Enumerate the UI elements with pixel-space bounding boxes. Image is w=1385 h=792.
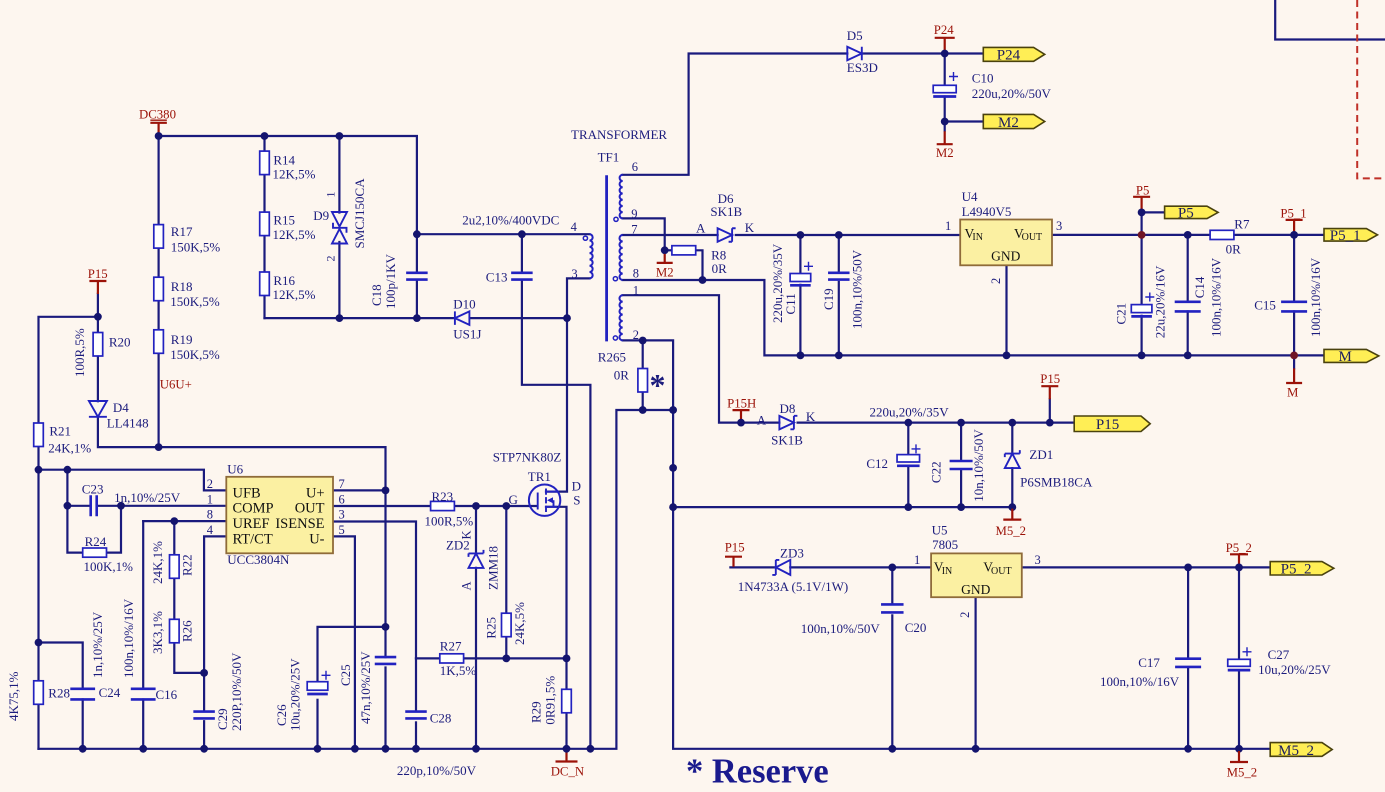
junction P15 node: [1046, 419, 1054, 427]
svg-text:D10: D10: [453, 297, 475, 312]
svg-text:ISENSE: ISENSE: [275, 516, 324, 532]
svg-text:P5: P5: [1136, 184, 1150, 198]
wire C28 top lead: [415, 658, 417, 711]
power port P5_2: [1230, 554, 1248, 567]
svg-text:C23: C23: [82, 482, 104, 497]
junction C17 bottom: [1184, 745, 1192, 753]
wire R25 riser: [505, 506, 507, 613]
svg-text:6: 6: [339, 492, 345, 506]
wire R28 bottom lead: [37, 704, 39, 749]
junction R8 right on pin8 wire: [699, 276, 707, 284]
svg-text:M2: M2: [998, 115, 1019, 131]
op-amp U4 regulator L4940V5: [960, 220, 1052, 266]
TF1 polarity dots: [614, 217, 618, 221]
svg-text:3: 3: [1035, 553, 1041, 567]
port flag P5_2: [1270, 562, 1334, 575]
svg-text:1: 1: [207, 492, 213, 506]
junction C14 top: [1184, 231, 1192, 239]
power port DC_N: [556, 751, 578, 762]
svg-text:U-: U-: [309, 531, 324, 547]
junction C29 at bus: [200, 745, 208, 753]
svg-text:100n,10%/50V: 100n,10%/50V: [801, 621, 881, 636]
svg-text:A: A: [696, 221, 706, 236]
wire R7 to P5_1: [1234, 234, 1324, 236]
junction C19 bottom: [835, 352, 843, 360]
wire C25 bottom lead: [384, 668, 386, 749]
wire ZD1 anode lead: [1011, 468, 1013, 507]
svg-text:P5_2: P5_2: [1281, 562, 1312, 578]
svg-text:P5: P5: [1178, 206, 1194, 222]
svg-text:220P,10%/50V: 220P,10%/50V: [229, 652, 244, 731]
wire C17 bottom lead: [1187, 667, 1189, 748]
svg-text:100R,5%: 100R,5%: [425, 514, 474, 529]
svg-text:ES3D: ES3D: [847, 60, 878, 75]
resistor R26: [170, 619, 180, 643]
junction DC380 at rail: [155, 132, 163, 140]
junction C25 at bus: [382, 745, 390, 753]
wire U5 VOUT to P5_2: [1022, 566, 1270, 568]
wire TF1 pin3 route: [567, 278, 590, 318]
svg-text:M: M: [1287, 386, 1298, 400]
wire DC_N ground bus: [39, 410, 674, 749]
wire ZD2 anode lead: [475, 568, 477, 749]
junction UFB left rail: [35, 466, 43, 474]
svg-text:P15: P15: [725, 540, 745, 554]
wire COMP pin1: [97, 505, 227, 507]
junction C13 path at bus: [587, 745, 595, 753]
wire P15 node to left rail / R21: [39, 317, 98, 423]
wire C19 bottom lead: [838, 282, 840, 356]
resistor R16: [260, 272, 270, 296]
wire C17 top lead: [1187, 567, 1189, 657]
svg-text:100n,10%/50V: 100n,10%/50V: [850, 249, 865, 329]
wire C28 bottom lead: [415, 722, 417, 748]
svg-text:OUT: OUT: [1022, 232, 1043, 243]
junction R24 right: [117, 502, 125, 510]
resistor R28: [34, 681, 44, 705]
junction U+ pin7: [382, 487, 390, 495]
wire R265 top lead: [642, 341, 644, 369]
svg-text:C11: C11: [783, 293, 798, 314]
svg-text:M2: M2: [656, 265, 674, 279]
svg-text:2u2,10%/400VDC: 2u2,10%/400VDC: [462, 213, 559, 228]
svg-text:P5_1: P5_1: [1330, 228, 1361, 244]
TF1 winding pins 6-9: [620, 175, 623, 219]
wire C21 top lead: [1140, 235, 1142, 305]
svg-text:P5_1: P5_1: [1280, 206, 1306, 220]
svg-text:R14: R14: [273, 152, 295, 167]
svg-text:TR1: TR1: [528, 469, 551, 484]
svg-text:D5: D5: [847, 28, 863, 43]
svg-text:C27: C27: [1268, 647, 1290, 662]
svg-text:C18: C18: [369, 284, 384, 306]
svg-text:C16: C16: [156, 687, 178, 702]
svg-text:1: 1: [324, 192, 338, 198]
wire C16 riser: [142, 521, 144, 689]
wire P15 node to R20: [97, 317, 99, 331]
wire sheet corner top right: [1275, 0, 1385, 40]
junction C28 at bus: [412, 745, 420, 753]
wire D6 cathode to U4 VIN: [736, 234, 960, 236]
wire C18 top lead: [416, 234, 418, 271]
svg-text:U6: U6: [227, 462, 243, 477]
junction D10 to drain node: [563, 314, 571, 322]
diode D8: [779, 416, 794, 430]
junction C24 at bus: [79, 745, 87, 753]
svg-text:1N4733A (5.1V/1W): 1N4733A (5.1V/1W): [738, 579, 849, 594]
wire C22 top lead: [960, 423, 962, 460]
svg-text:C17: C17: [1138, 655, 1160, 670]
capacitor C26: [307, 682, 328, 691]
svg-text:UCC3804N: UCC3804N: [227, 552, 290, 567]
TVS diode D9: [332, 212, 347, 227]
svg-text:5: 5: [339, 523, 345, 537]
wire C10 bottom lead: [944, 97, 946, 131]
svg-text:GND: GND: [961, 582, 990, 597]
svg-text:1: 1: [633, 284, 639, 298]
capacitor C29: [193, 712, 215, 719]
resistor R7: [1210, 230, 1234, 239]
op-amp U5 regulator 7805: [931, 553, 1022, 597]
zener diode ZD1: [1005, 450, 1020, 457]
svg-text:K: K: [460, 530, 474, 539]
wire R20 to D4: [97, 356, 99, 401]
svg-text:R25: R25: [483, 617, 498, 639]
capacitor C27: [1228, 659, 1251, 666]
junction D9 top: [336, 132, 344, 140]
wire TF1 pin2 route: [623, 340, 673, 410]
wire C24 branch: [39, 643, 83, 689]
capacitor C18: [406, 273, 428, 280]
junction C11 bottom: [797, 352, 805, 360]
svg-text:7: 7: [339, 477, 345, 491]
capacitor C20: [881, 604, 904, 612]
svg-text:R23: R23: [432, 489, 454, 504]
svg-text:3: 3: [1056, 219, 1062, 233]
wire R8 right lead: [696, 250, 703, 280]
svg-text:10u,20%/25V: 10u,20%/25V: [1258, 662, 1331, 677]
svg-text:P6SMB18CA: P6SMB18CA: [1020, 475, 1093, 490]
port flag P24: [983, 47, 1044, 61]
wire R25 bottom lead: [505, 637, 507, 659]
capacitor C22: [950, 461, 973, 469]
wire U+ pin7 stub: [333, 489, 386, 491]
svg-text:D8: D8: [780, 401, 796, 416]
capacitor C12: [897, 455, 920, 462]
wire R27 to source riser: [464, 657, 567, 659]
svg-text:24K,1%: 24K,1%: [150, 541, 165, 584]
wire R22-R26: [173, 578, 175, 619]
svg-text:M5_2: M5_2: [1278, 743, 1314, 759]
svg-text:100R,5%: 100R,5%: [72, 328, 87, 377]
svg-text:R20: R20: [109, 335, 131, 350]
junction R22 top: [170, 517, 178, 525]
junction U6U+ node: [155, 443, 163, 451]
wire UREF pin8: [143, 520, 226, 522]
junction C22 top: [957, 419, 965, 427]
svg-text:IN: IN: [972, 232, 983, 243]
diode D6: [718, 228, 733, 242]
wire R17-R18: [158, 248, 160, 277]
power port P24: [935, 38, 955, 51]
svg-text:47n,10%/25V: 47n,10%/25V: [358, 651, 373, 724]
wire C10 top lead: [944, 54, 946, 86]
junction C14 bottom: [1184, 352, 1192, 360]
svg-text:COMP: COMP: [233, 501, 274, 517]
wire C27 top lead: [1238, 567, 1240, 659]
power port P5_1: [1286, 220, 1303, 235]
svg-text:ZD3: ZD3: [780, 546, 804, 561]
port flag M2: [983, 114, 1044, 128]
svg-text:STP7NK80Z: STP7NK80Z: [493, 450, 562, 465]
svg-text:LL4148: LL4148: [107, 416, 149, 431]
junction C20 bottom: [888, 745, 896, 753]
svg-text:150K,5%: 150K,5%: [170, 294, 220, 309]
wire R23 to gate: [454, 505, 536, 507]
svg-text:P5_2: P5_2: [1226, 541, 1252, 555]
svg-text:SMCJ150CA: SMCJ150CA: [352, 178, 367, 249]
svg-text:UREF: UREF: [233, 516, 270, 532]
junction P5 branch: [1138, 209, 1146, 217]
junction U- at bus: [351, 745, 359, 753]
wire R19 to U6U+ node: [158, 353, 160, 447]
wire drain riser: [546, 318, 567, 492]
op-amp U6 controller UCC3804N: [226, 477, 333, 554]
wire P5 flag stub: [1142, 211, 1165, 213]
svg-text:150K,5%: 150K,5%: [171, 240, 221, 255]
svg-text:1n,10%/25V: 1n,10%/25V: [114, 490, 181, 505]
svg-text:R7: R7: [1234, 217, 1250, 232]
svg-text:SK1B: SK1B: [710, 204, 742, 219]
svg-text:SK1B: SK1B: [771, 432, 803, 447]
power port P15H: [733, 410, 750, 423]
svg-text:R15: R15: [273, 213, 295, 228]
svg-text:R29: R29: [529, 701, 544, 723]
wire RT/CT pin4 route: [204, 536, 226, 710]
capacitor C23: [91, 495, 97, 516]
junction P15H node: [737, 419, 745, 427]
junction R265 bottom: [639, 406, 647, 414]
resistor R8: [672, 246, 696, 255]
resistor R27: [440, 654, 464, 663]
junction C27/P5_2 top: [1235, 564, 1243, 572]
svg-text:220u,20%/35V: 220u,20%/35V: [870, 404, 950, 419]
junction C12 top: [904, 419, 912, 427]
wire D8 cathode to P15 flag: [798, 422, 1075, 424]
svg-text:S: S: [573, 493, 580, 508]
svg-text:C20: C20: [905, 620, 927, 635]
wire P5 branch: [1140, 212, 1142, 235]
power port M2 below C10: [937, 131, 953, 144]
capacitor C15: [1281, 302, 1307, 312]
svg-text:R21: R21: [49, 424, 71, 439]
wire R265 bottom lead: [642, 392, 644, 410]
svg-text:0R: 0R: [712, 261, 728, 276]
wire U5 GND pin2: [974, 597, 976, 749]
junction D9 bottom: [336, 314, 344, 322]
capacitor C24: [70, 689, 95, 700]
svg-text:4K75,1%: 4K75,1%: [6, 671, 21, 721]
svg-text:1: 1: [945, 219, 951, 233]
svg-text:R22: R22: [180, 554, 195, 576]
junction C21 bottom: [1138, 352, 1146, 360]
svg-text:K: K: [806, 409, 816, 424]
svg-text:220u,20%/50V: 220u,20%/50V: [972, 86, 1052, 101]
svg-text:P15: P15: [88, 267, 108, 281]
svg-text:C13: C13: [486, 270, 508, 285]
wire R14-R15: [263, 175, 265, 213]
svg-text:3: 3: [339, 508, 345, 522]
svg-text:10n,10%/50V: 10n,10%/50V: [971, 429, 986, 502]
wire P15 stub to rail: [97, 294, 99, 317]
svg-text:C25: C25: [338, 664, 353, 686]
svg-text:100n,10%/16V: 100n,10%/16V: [121, 598, 136, 678]
wire U+ riser to C25: [384, 490, 386, 657]
wire D9 bottom lead: [338, 242, 340, 318]
power port DC380: [150, 123, 167, 136]
junction U4 GND bus: [1003, 352, 1011, 360]
junction C17 top: [1184, 564, 1192, 572]
wire TF1 pin1 route: [623, 295, 741, 422]
svg-text:1n,10%/25V: 1n,10%/25V: [90, 611, 105, 678]
svg-text:C15: C15: [1254, 298, 1276, 313]
capacitor C25: [375, 657, 397, 664]
svg-text:A: A: [460, 581, 474, 590]
junction pin2 riser at bus: [669, 406, 677, 414]
wire M5_2 riser and bottom bus: [673, 410, 1270, 749]
wire TF1 pin7 to D6: [623, 234, 718, 236]
wire UFB pin2 route: [39, 470, 227, 491]
svg-text:2: 2: [324, 256, 338, 262]
wire R22 top lead: [173, 521, 175, 555]
TF1 primary winding pins 4-3: [590, 234, 593, 278]
resistor R17: [154, 225, 164, 249]
wire snubber bottom bus: [265, 317, 455, 319]
svg-text:10u,20%/25V: 10u,20%/25V: [288, 658, 303, 731]
wire R15-R16: [263, 236, 265, 272]
svg-text:12K,5%: 12K,5%: [273, 227, 316, 242]
svg-text:DC_N: DC_N: [551, 765, 584, 779]
wire C18 bottom lead: [416, 281, 418, 318]
svg-text:TF1: TF1: [598, 150, 620, 165]
junction U5 GND bus: [972, 745, 980, 753]
svg-text:100K,1%: 100K,1%: [84, 559, 134, 574]
power port P15 at ZD3: [725, 557, 742, 567]
svg-text:8: 8: [207, 508, 213, 522]
wire C23 left lead: [67, 505, 90, 507]
wire P15 to ZD3: [730, 566, 775, 568]
junction ZD1 top: [1008, 419, 1016, 427]
svg-text:DC380: DC380: [139, 107, 176, 121]
svg-text:P15: P15: [1040, 372, 1060, 386]
power port M5_2 below ZD1: [1003, 509, 1021, 520]
svg-text:2: 2: [989, 278, 1003, 284]
svg-text:U6U+: U6U+: [160, 378, 192, 392]
wire ZD1 cathode lead: [1011, 423, 1013, 454]
svg-text:C28: C28: [430, 711, 452, 726]
svg-text:7805: 7805: [932, 537, 958, 552]
wire C11 top lead: [799, 235, 801, 274]
wire R8 left lead: [665, 249, 672, 251]
svg-text:2: 2: [207, 477, 213, 491]
capacitor C13: [511, 273, 533, 280]
svg-text:R17: R17: [171, 224, 193, 239]
junction R26 to RT/CT: [200, 669, 208, 677]
wire TF1 pin6 route: [623, 54, 848, 175]
svg-text:R26: R26: [180, 620, 195, 642]
svg-text:R24: R24: [85, 534, 107, 549]
junction C19 top: [835, 231, 843, 239]
zener diode ZD2: [469, 550, 484, 557]
power port M5_2 bottom right: [1230, 751, 1248, 762]
resistor R15: [260, 212, 270, 236]
wire P15H to D8 anode: [741, 422, 779, 424]
junction C18 top: [413, 230, 421, 238]
svg-text:24K,1%: 24K,1%: [48, 441, 91, 456]
junction C23 riser: [64, 466, 72, 474]
svg-text:M5_2: M5_2: [996, 524, 1027, 538]
wire D9 top lead: [338, 136, 340, 213]
TF1 winding pins 7-8: [619, 235, 622, 280]
junction P5/VOUT (red): [1138, 231, 1146, 239]
svg-text:IN: IN: [942, 566, 953, 577]
wire C11 bottom lead: [799, 285, 801, 356]
svg-text:C22: C22: [929, 461, 944, 483]
wire U4 GND pin2: [1005, 265, 1007, 355]
junction DC_N: [563, 745, 571, 753]
svg-text:TRANSFORMER: TRANSFORMER: [571, 127, 667, 142]
port flag M5_2: [1270, 743, 1332, 757]
svg-text:C21: C21: [1114, 303, 1129, 325]
svg-text:7: 7: [631, 223, 637, 237]
wire M2 flag stub: [945, 120, 984, 122]
power port P15 at flag: [1041, 386, 1058, 399]
resistor R14: [260, 151, 270, 175]
wire C20 top lead: [891, 567, 893, 603]
wire R24 right riser: [106, 506, 121, 553]
junction C20 top: [888, 564, 896, 572]
junction M5_2 upper bus tap: [669, 503, 677, 511]
svg-text:12K,5%: 12K,5%: [273, 167, 316, 182]
junction C11 top: [797, 231, 805, 239]
svg-text:C14: C14: [1192, 276, 1207, 298]
wire ISENSE pin3 route: [333, 522, 416, 659]
port flag P5_1: [1324, 229, 1378, 242]
junction C27 bottom: [1235, 745, 1243, 753]
svg-text:150K,5%: 150K,5%: [170, 347, 220, 362]
junction P15 left node: [94, 313, 102, 321]
junction C12 bottom: [904, 503, 912, 511]
svg-text:22u,20%/16V: 22u,20%/16V: [1153, 265, 1168, 338]
wire ZD3 anode to U5 VIN: [790, 566, 931, 568]
wire C26 bottom lead: [316, 700, 318, 749]
svg-text:C12: C12: [866, 456, 888, 471]
junction C24 branch: [35, 639, 43, 647]
wire R21 to UFB wire: [37, 447, 39, 681]
junction spare on M5_2 riser: [669, 464, 677, 472]
resistor R24: [83, 548, 107, 557]
capacitor C17: [1175, 659, 1201, 667]
power port P5: [1133, 197, 1150, 210]
wire OUT pin6 to R23: [333, 505, 431, 507]
svg-text:8: 8: [633, 267, 639, 281]
junction R25 gate node: [502, 502, 510, 510]
svg-text:1K,5%: 1K,5%: [440, 663, 477, 678]
wire C13 top lead: [521, 234, 523, 271]
wire C21 bottom lead: [1140, 316, 1142, 356]
resistor R265: [638, 369, 648, 393]
svg-text:2: 2: [633, 328, 639, 342]
